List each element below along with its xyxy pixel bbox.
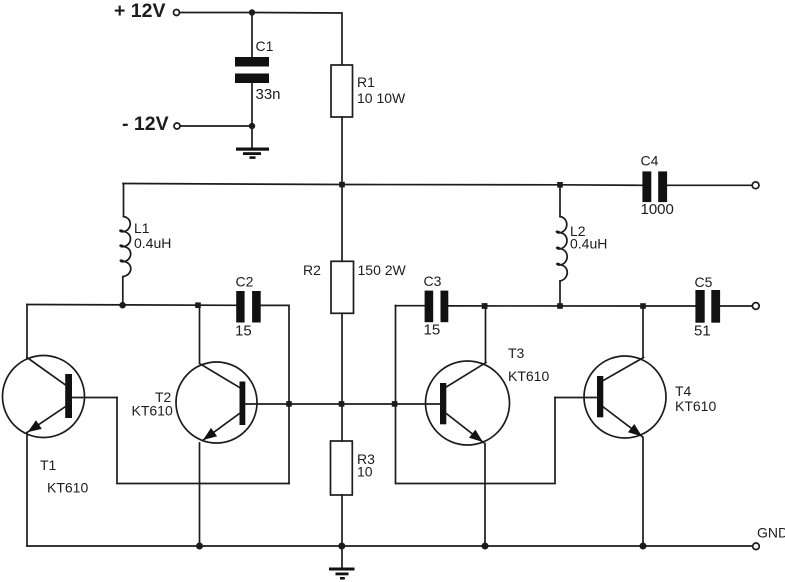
- node R2/R3 junction: [339, 401, 345, 407]
- inductor L1: [120, 184, 171, 306]
- wire C4 to output terminal: [667, 184, 752, 186]
- svg-text:33n: 33n: [256, 86, 281, 103]
- svg-text:R2: R2: [303, 262, 321, 278]
- svg-text:T1: T1: [40, 457, 57, 473]
- wire rail to R2 top: [341, 185, 343, 262]
- svg-text:T3: T3: [508, 345, 525, 361]
- svg-text:C3: C3: [424, 273, 442, 289]
- wire T1 collector: [26, 305, 28, 359]
- node T2 emitter junction: [196, 543, 203, 550]
- svg-text:KT610: KT610: [47, 480, 88, 496]
- wire node to C1 top: [251, 13, 253, 58]
- wire upper rail: [123, 184, 643, 186]
- svg-text:KT610: KT610: [508, 368, 549, 384]
- capacitor C5: [694, 274, 720, 340]
- node T3 collector junction: [482, 303, 488, 309]
- wire C1 bottom to -12V node: [251, 83, 253, 126]
- node -12V junction: [249, 123, 255, 129]
- svg-text:15: 15: [424, 322, 441, 339]
- node T3 emitter junction: [482, 543, 489, 550]
- svg-text:KT610: KT610: [675, 398, 716, 414]
- wire -12V to node: [180, 125, 252, 127]
- node L2 bottom junction: [557, 303, 563, 309]
- svg-text:150 2W: 150 2W: [358, 262, 407, 278]
- svg-text:51: 51: [694, 323, 711, 340]
- resistor R2: [303, 261, 407, 313]
- svg-text:GND: GND: [757, 525, 785, 541]
- wire T1 emitter: [26, 433, 28, 547]
- wire ground rail: [27, 545, 753, 547]
- svg-text:C4: C4: [641, 153, 659, 169]
- svg-text:C2: C2: [236, 274, 254, 290]
- resistor R3: [331, 441, 376, 495]
- wire base rail T2 to T3: [245, 403, 440, 405]
- node T2 collector junction: [195, 302, 201, 308]
- wire T3 emitter: [484, 444, 486, 547]
- node C2/T2 base junction: [286, 401, 292, 407]
- wire T3 collector: [485, 306, 487, 363]
- wire left collector rail: [27, 304, 237, 307]
- node R3 bottom junction: [338, 543, 345, 550]
- node C3/T3 base junction: [392, 401, 398, 407]
- wire C2 right to corner down: [261, 305, 289, 483]
- transistor T1: [3, 356, 118, 496]
- transistor T4: [584, 356, 716, 438]
- ground (bottom): [329, 568, 355, 580]
- svg-text:L1: L1: [134, 220, 150, 236]
- wire T4 collector: [642, 306, 644, 358]
- node T4 collector junction: [640, 303, 646, 309]
- capacitor C1: [235, 38, 281, 103]
- wire T2 emitter: [199, 443, 201, 546]
- svg-text:15: 15: [235, 323, 252, 340]
- svg-text:+ 12V: + 12V: [114, 0, 166, 22]
- terminal RF output bottom: [752, 303, 759, 310]
- transistor T3: [426, 345, 550, 445]
- wire node to R1 top corner: [252, 13, 342, 66]
- node L1 bottom junction: [119, 302, 126, 309]
- svg-text:C1: C1: [256, 38, 274, 54]
- svg-text:- 12V: - 12V: [122, 113, 169, 135]
- svg-text:1000: 1000: [641, 201, 674, 218]
- wire R3 ground stub: [341, 546, 343, 568]
- terminal GND: [753, 525, 785, 550]
- wire R3 bottom to ground rail: [341, 495, 343, 546]
- svg-text:C5: C5: [695, 274, 713, 290]
- capacitor C2: [235, 274, 261, 340]
- wire base rail to R3 top: [341, 404, 343, 441]
- wire T4 emitter: [642, 438, 644, 547]
- wire T2 collector: [199, 306, 201, 363]
- svg-text:R1: R1: [357, 74, 375, 90]
- svg-text:10: 10: [357, 464, 373, 480]
- inductor L2: [556, 185, 607, 306]
- wire base link left: [117, 398, 289, 484]
- svg-text:10 10W: 10 10W: [357, 90, 406, 106]
- wire node to ground: [251, 126, 253, 148]
- ground (C1): [236, 148, 269, 159]
- terminal RF output top: [752, 182, 759, 189]
- svg-text:0.4uH: 0.4uH: [134, 235, 171, 251]
- node T4 emitter junction: [640, 543, 647, 550]
- transistor T2: [132, 362, 258, 443]
- wire C3 column down: [396, 306, 556, 484]
- node top-left junction: [249, 9, 255, 15]
- capacitor C4: [641, 153, 674, 219]
- svg-text:0.4uH: 0.4uH: [570, 236, 607, 252]
- svg-text:KT610: KT610: [132, 403, 173, 419]
- resistor R1: [331, 65, 406, 117]
- node R1 rail junction: [339, 182, 345, 188]
- terminal -12V: [122, 113, 180, 135]
- wire right collector rail: [396, 305, 753, 307]
- terminal +12V: [114, 0, 180, 22]
- wire R1 bottom to rail: [341, 117, 343, 185]
- wire T4 base: [555, 397, 597, 399]
- wire R2 bottom to base rail: [341, 313, 343, 404]
- svg-text:T4: T4: [675, 383, 692, 399]
- wire +12V to node: [180, 12, 252, 14]
- node L2 rail junction: [557, 182, 563, 188]
- capacitor C3: [424, 273, 449, 339]
